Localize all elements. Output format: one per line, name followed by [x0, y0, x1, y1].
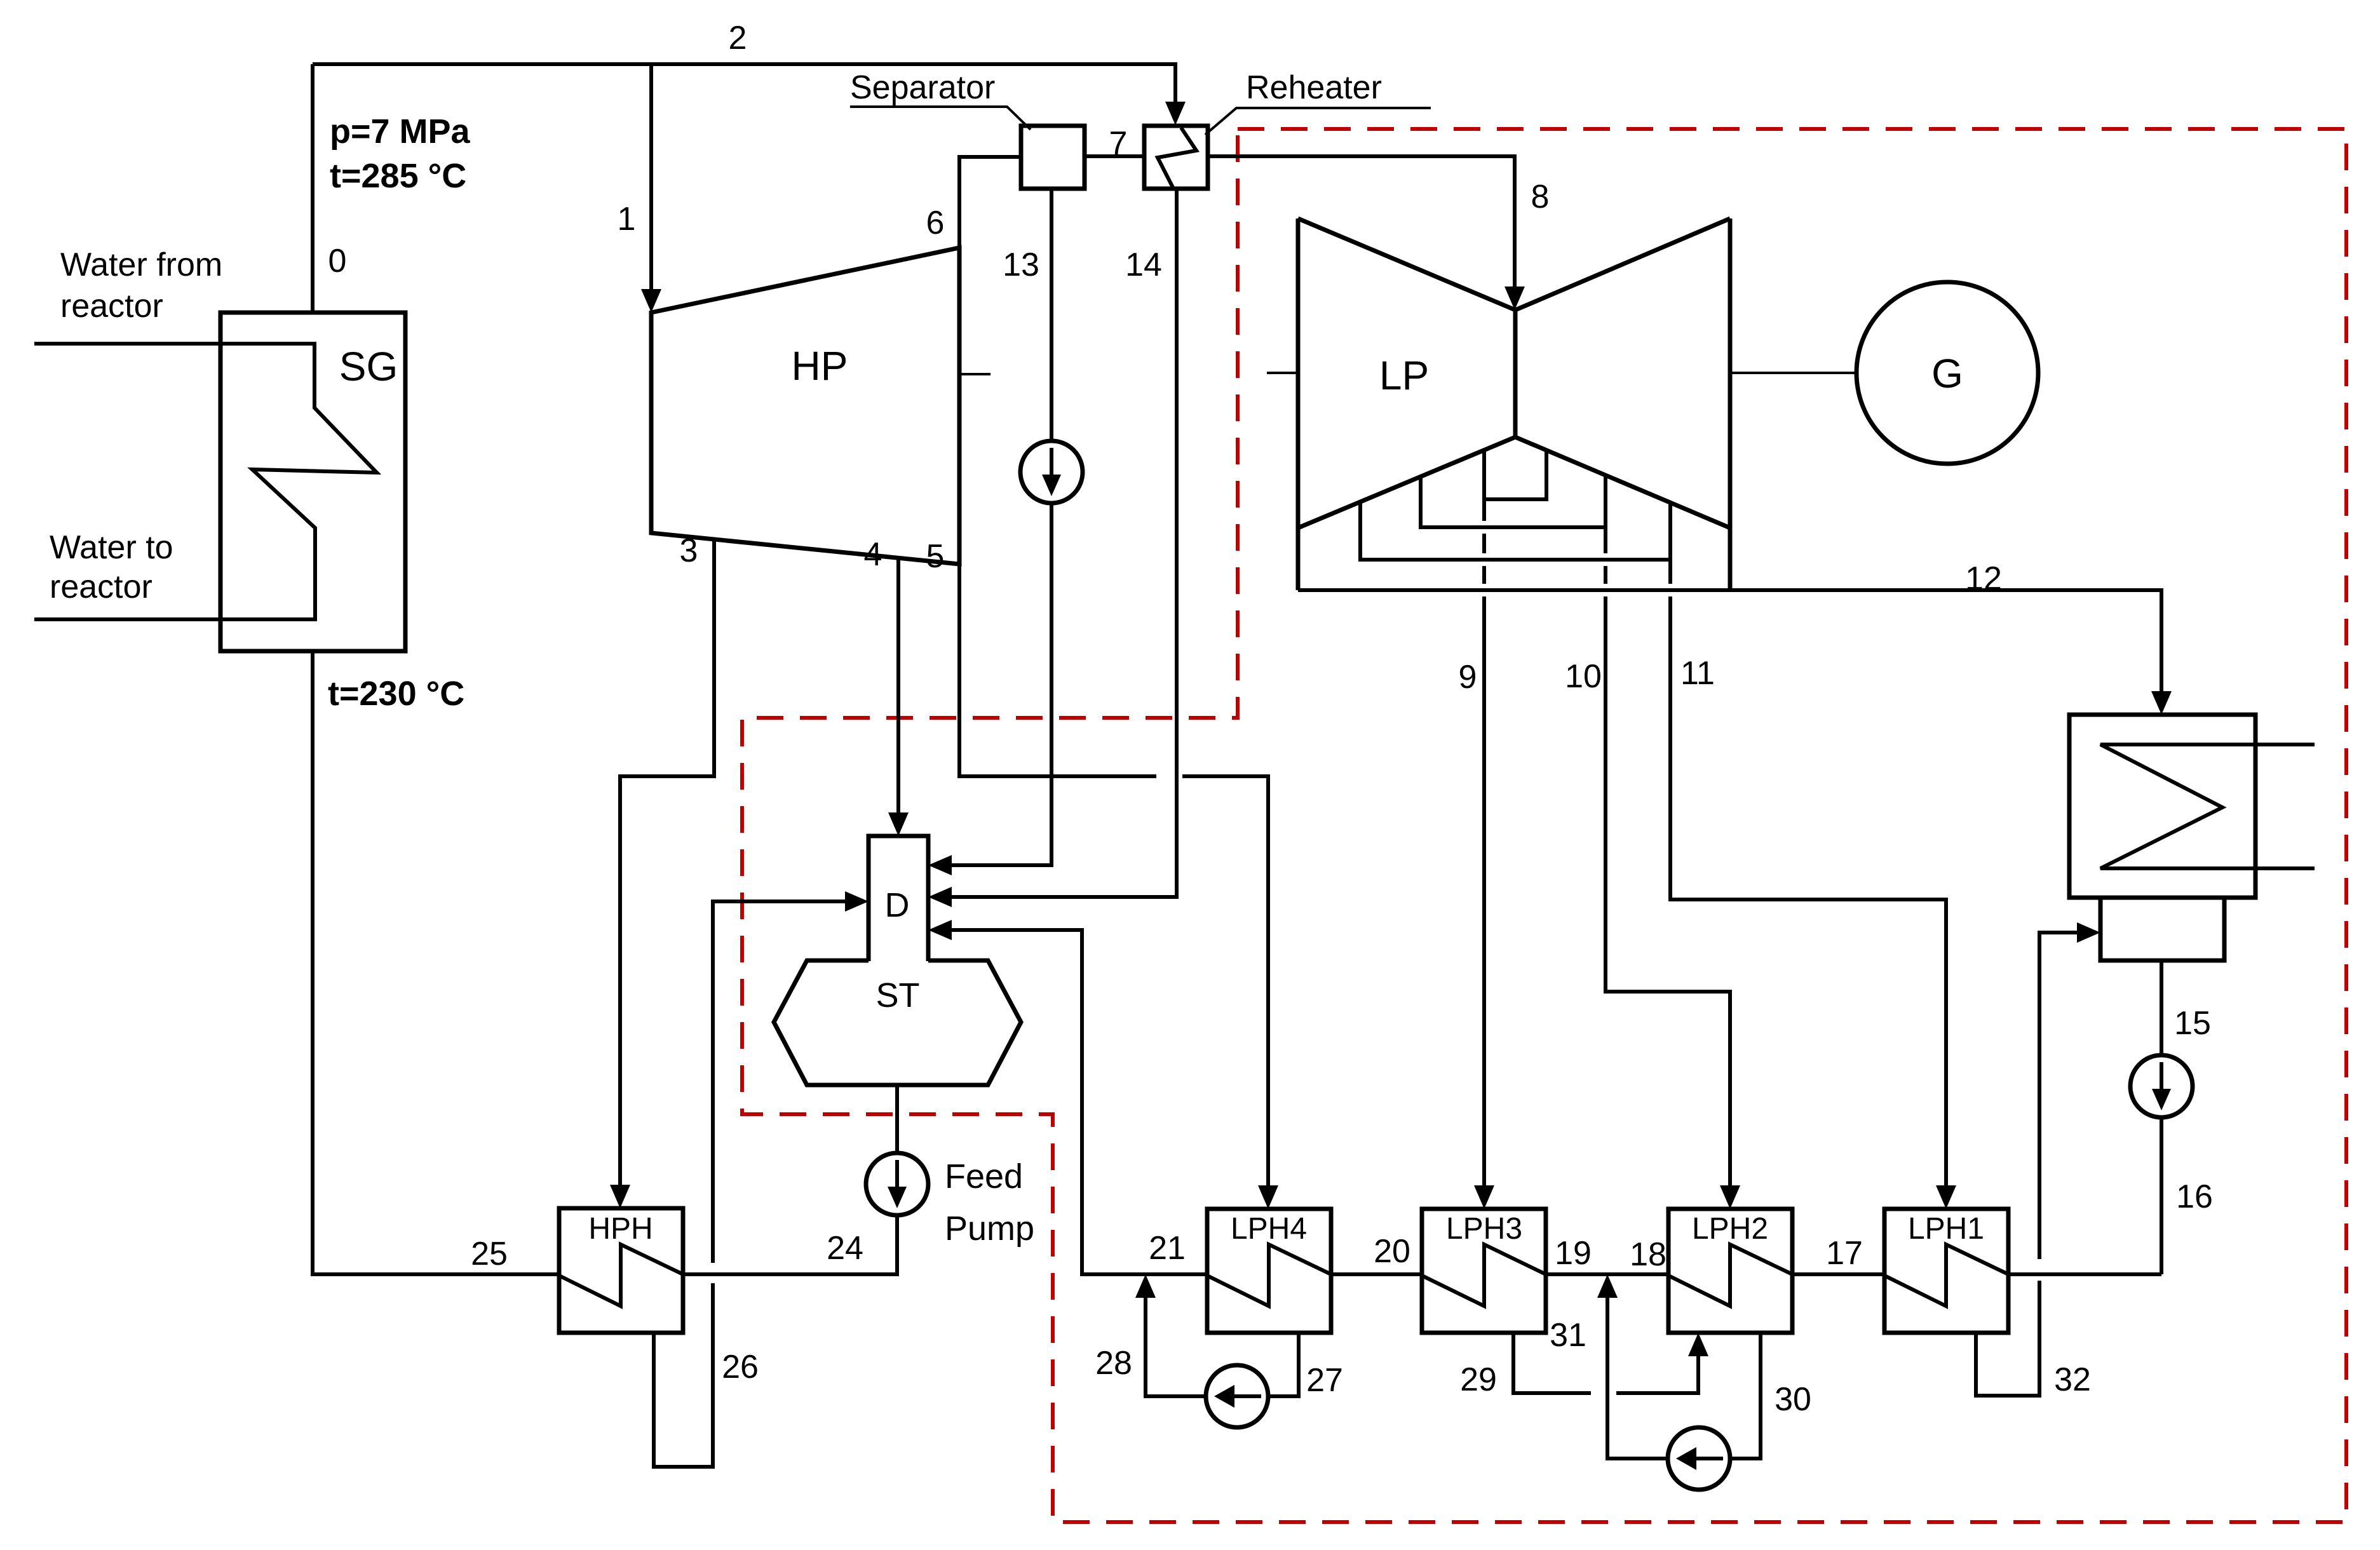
wire D feed branch	[713, 901, 845, 1263]
svg-text:reactor: reactor	[50, 569, 152, 605]
wire stream 14 : reheater drain to D	[951, 189, 1177, 897]
LP shaft stub left	[1267, 372, 1298, 374]
wire stream 10 : LP extraction to LPH2	[1606, 475, 1730, 1185]
svg-text:3: 3	[680, 532, 698, 569]
arrow stream 4 into D top	[888, 812, 909, 836]
wire stream 13 : separator drain	[951, 189, 1051, 865]
condenser	[2069, 715, 2315, 898]
svg-text:LPH4: LPH4	[1231, 1212, 1307, 1246]
svg-text:24: 24	[827, 1230, 863, 1267]
wire stream 5 to LPH4	[1182, 776, 1268, 1185]
pump on stream 13	[1020, 441, 1083, 503]
wire stream 18-19	[1546, 1272, 1668, 1276]
arrow into LPH1 top	[1936, 1185, 1956, 1209]
shaft LP to G	[1730, 372, 1856, 374]
LP exhaust hood 1	[1484, 450, 1546, 499]
svg-text:reactor: reactor	[60, 288, 163, 325]
svg-text:10: 10	[1565, 658, 1602, 695]
arrow stream 28 into condensate main	[1135, 1274, 1156, 1298]
wire stream 26 : HPH drain	[654, 1283, 713, 1467]
svg-text:13: 13	[1003, 246, 1039, 283]
svg-text:5: 5	[926, 538, 945, 575]
svg-text:LPH2: LPH2	[1692, 1212, 1768, 1246]
svg-text:17: 17	[1826, 1235, 1863, 1272]
svg-text:1: 1	[618, 201, 636, 238]
svg-text:19: 19	[1555, 1235, 1592, 1272]
svg-text:HPH: HPH	[588, 1212, 652, 1246]
svg-text:28: 28	[1095, 1345, 1132, 1382]
arrow stream 21 into D	[928, 920, 952, 940]
svg-text:16: 16	[2176, 1178, 2213, 1215]
wire stream 9 : LP extraction to LPH3	[1482, 450, 1486, 1185]
wire stream 4 : HP exhaust to D	[896, 558, 900, 812]
pump on LPH4 drain	[1206, 1365, 1268, 1427]
arrow into LPH3 top	[1474, 1185, 1494, 1209]
wire stream 30 : LPH2 drain	[1731, 1333, 1761, 1459]
wire stream 17	[1792, 1272, 1884, 1276]
wire stream 29 : LPH3 drain to LPH2	[1513, 1333, 1698, 1393]
svg-text:Reheater: Reheater	[1246, 69, 1382, 106]
pump on LPH2 drain	[1668, 1427, 1730, 1490]
wire stream 28 riser	[1146, 1298, 1205, 1396]
arrow into LPH4 top	[1258, 1185, 1278, 1209]
svg-text:HP: HP	[792, 343, 848, 389]
SG heating coil	[34, 344, 377, 619]
arrow stream 31 into condensate main	[1597, 1274, 1618, 1298]
wire stream 16 : pump to LPH1	[2160, 1117, 2163, 1274]
arrow stream 32 into hotwell	[2077, 922, 2100, 943]
steam tank ST	[774, 960, 1021, 1085]
svg-text:12: 12	[1965, 560, 2002, 597]
arrow into LP inlet	[1504, 286, 1525, 310]
svg-text:6: 6	[926, 205, 945, 241]
svg-text:0: 0	[328, 243, 347, 280]
svg-text:4: 4	[864, 536, 882, 573]
svg-text:D: D	[885, 886, 910, 924]
svg-text:31: 31	[1550, 1317, 1586, 1354]
svg-text:t=230 °C: t=230 °C	[328, 675, 464, 713]
svg-text:9: 9	[1459, 659, 1477, 696]
svg-text:26: 26	[722, 1349, 759, 1385]
wire stream 31 riser	[1607, 1298, 1667, 1459]
svg-text:32: 32	[2054, 1361, 2091, 1398]
heater LPH3	[1422, 1209, 1546, 1333]
svg-text:Pump: Pump	[945, 1210, 1034, 1248]
wire stream 2 top header	[313, 64, 1175, 102]
svg-text:18: 18	[1630, 1236, 1667, 1273]
arrow stream 13 into D	[928, 855, 952, 875]
svg-text:21: 21	[1149, 1230, 1186, 1267]
svg-text:G: G	[1931, 351, 1963, 396]
wire condensate main LPH1 to pump16	[2008, 1272, 2161, 1276]
svg-text:27: 27	[1306, 1362, 1343, 1399]
arrow into HPH top	[610, 1185, 630, 1208]
svg-text:20: 20	[1374, 1233, 1410, 1270]
svg-text:29: 29	[1460, 1361, 1497, 1398]
arrow feed branch into D	[845, 891, 869, 912]
turbine LP	[1298, 219, 1730, 590]
wire stream 27 : LPH4 drain	[1269, 1333, 1299, 1396]
svg-text:2: 2	[729, 20, 747, 57]
arrow into LPH2 top	[1720, 1185, 1740, 1209]
svg-text:8: 8	[1531, 179, 1550, 215]
arrow into condenser top	[2151, 691, 2172, 715]
svg-text:LP: LP	[1379, 353, 1429, 398]
arrow stream 29 into LPH2 bottom	[1688, 1333, 1708, 1356]
separator	[850, 69, 1085, 189]
svg-text:7: 7	[1109, 125, 1128, 162]
generator G	[1856, 282, 2038, 464]
node 0 : SG steam outlet riser	[311, 64, 314, 313]
HP shaft stub	[959, 373, 991, 375]
svg-text:11: 11	[1680, 655, 1715, 692]
wire stream 20	[1331, 1272, 1422, 1276]
heater LPH4	[1207, 1209, 1331, 1333]
wire stream 15 : hotwell to condensate pump	[2160, 960, 2163, 1055]
svg-text:Separator: Separator	[850, 69, 995, 106]
wire stream 6 : HP exhaust to separator and stream 5 header	[959, 157, 1156, 776]
svg-text:Feed: Feed	[945, 1157, 1023, 1196]
heater HPH	[559, 1208, 683, 1333]
wire stream 21 : LPH4 to D	[951, 930, 1207, 1274]
feed pump	[866, 1153, 1034, 1248]
wire stream 8 : reheater to LP	[1208, 156, 1515, 286]
LP exhaust hood 2	[1421, 476, 1606, 527]
wire stream 24 : feed pump discharge	[683, 1215, 897, 1274]
svg-text:14: 14	[1125, 246, 1162, 283]
condensate pump	[2130, 1055, 2193, 1117]
wire stream 7	[1085, 154, 1144, 158]
wire stream 32 : LPH1 drain to hotwell	[1976, 933, 2077, 1396]
svg-text:t=285 °C: t=285 °C	[330, 157, 466, 195]
heater LPH2	[1668, 1209, 1792, 1333]
steam generator SG	[220, 313, 405, 651]
heater LPH1	[1884, 1209, 2008, 1333]
svg-text:ST: ST	[876, 976, 919, 1014]
wire stream 12 : LP exhaust to condenser	[1298, 590, 2161, 691]
reheater	[1144, 69, 1431, 189]
svg-text:LPH1: LPH1	[1908, 1212, 1984, 1246]
wire stream 1 to HP inlet	[649, 64, 653, 289]
svg-text:15: 15	[2174, 1005, 2211, 1042]
svg-text:Water to: Water to	[50, 529, 173, 566]
red dashed system boundary	[742, 129, 2346, 1522]
wire stream 11 : LP extraction to LPH1	[1670, 502, 1946, 1185]
arrow stream 14 into D	[928, 887, 952, 907]
svg-text:LPH3: LPH3	[1446, 1212, 1522, 1246]
svg-text:SG: SG	[339, 344, 398, 389]
condenser hotwell	[2100, 898, 2224, 960]
wire stream 25 : feedwater return to SG	[313, 651, 559, 1274]
turbine HP	[651, 248, 959, 564]
svg-text:25: 25	[471, 1236, 508, 1272]
svg-text:p=7 MPa: p=7 MPa	[330, 112, 471, 151]
svg-text:30: 30	[1775, 1381, 1811, 1418]
arrow into HP inlet	[641, 289, 661, 313]
svg-text:Water from: Water from	[60, 246, 222, 283]
wire ST to feed pump	[895, 1085, 899, 1153]
LP exhaust hood 3	[1360, 502, 1670, 560]
wire stream 3 : HP extraction to HPH	[620, 539, 714, 1185]
deaerator D	[869, 836, 928, 961]
arrow into reheater top	[1165, 102, 1186, 125]
